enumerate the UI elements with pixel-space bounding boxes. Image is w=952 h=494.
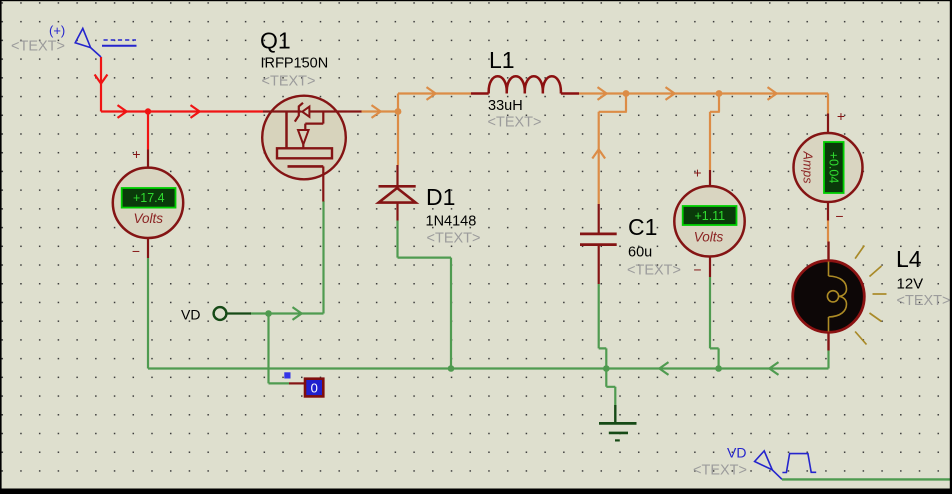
- svg-text:−: −: [835, 208, 843, 224]
- svg-text:+0.04: +0.04: [826, 152, 840, 184]
- wire arrow: orange up into C1 branch: [592, 149, 605, 158]
- svg-text:IRFP150N: IRFP150N: [261, 56, 329, 72]
- logic state box 0: [305, 379, 323, 397]
- lamp L4 stub bottom: [827, 332, 829, 351]
- svg-text:Volts: Volts: [694, 230, 724, 245]
- junction: VD gate node: [265, 310, 272, 317]
- wire: red net from battery to Q1 drain: [101, 57, 263, 150]
- svg-text:C1: C1: [628, 214, 657, 240]
- svg-text:<TEXT>: <TEXT>: [427, 231, 481, 247]
- wire arrow: orange after V2 node: [768, 87, 777, 100]
- junction: D1 node: [395, 108, 402, 115]
- svg-text:<TEXT>: <TEXT>: [488, 115, 542, 131]
- wire: green net D1 anode to ground bus: [148, 201, 829, 406]
- svg-text:<TEXT>: <TEXT>: [627, 263, 681, 279]
- junction: voltmeter2 node: [716, 90, 723, 97]
- svg-text:60u: 60u: [628, 245, 652, 261]
- svg-text:<TEXT>: <TEXT>: [11, 39, 65, 55]
- svg-text:1N4148: 1N4148: [426, 214, 477, 230]
- capacitor C1 bottom plate: [580, 243, 617, 246]
- wire arrow: orange before D1 node: [372, 105, 381, 118]
- ground symbol: [599, 405, 637, 440]
- frame border top: [0, 0, 952, 1]
- junction: voltmeter2 bus node: [715, 365, 722, 372]
- svg-text:VD: VD: [727, 445, 746, 461]
- svg-text:VD: VD: [181, 307, 200, 323]
- wire VD terminal dark green: [227, 312, 252, 314]
- diode D1 cathode bar: [379, 185, 416, 188]
- voltmeter VM2 pin stub top: [709, 170, 711, 187]
- ammeter AM1 pin stub top: [827, 114, 829, 134]
- svg-text:+: +: [837, 108, 845, 124]
- transistor Q1 internal MOSFET symbol: [263, 103, 362, 202]
- voltmeter VM2 body: [674, 186, 744, 256]
- wire arrow: down on battery feed: [95, 75, 108, 84]
- capacitor C1 pin stub bottom: [598, 245, 600, 284]
- wire arrow: orange between C1 and V2 nodes: [666, 87, 675, 100]
- generator VD pulse source symbol: [755, 451, 817, 479]
- transistor Q1 body circle: [262, 96, 346, 180]
- junction: D1 bus node: [448, 365, 455, 372]
- voltmeter VM2 display: [683, 206, 737, 225]
- voltmeter VM1 body: [113, 168, 183, 238]
- frame border right: [950, 0, 952, 494]
- junction: ground bus node: [603, 365, 610, 372]
- svg-text:<TEXT>: <TEXT>: [693, 463, 747, 479]
- junction: battery/voltmeter node: [145, 108, 151, 114]
- svg-text:+1.11: +1.11: [694, 209, 725, 223]
- capacitor C1 pin stub top: [598, 204, 600, 233]
- svg-text:L1: L1: [489, 47, 515, 73]
- svg-text:+17.4: +17.4: [133, 191, 165, 205]
- svg-text:<TEXT>: <TEXT>: [897, 293, 951, 309]
- wire arrow: green bus leftward 2: [769, 362, 778, 375]
- diode D1 pin stub top: [396, 165, 398, 186]
- voltmeter VM2 pin stub bottom: [709, 256, 711, 277]
- svg-text:Q1: Q1: [260, 28, 291, 54]
- junction: C1 node: [623, 90, 630, 97]
- wire: generator output green: [782, 478, 952, 480]
- voltmeter VM1 pin stub bottom: [147, 238, 149, 259]
- svg-text:(+): (+): [49, 23, 65, 38]
- ammeter AM1 body: [794, 133, 863, 202]
- svg-text:+: +: [693, 165, 701, 181]
- svg-text:0: 0: [311, 381, 318, 396]
- frame border bottom: [0, 489, 952, 494]
- wire: orange net Q1 drain stub to D1 junction: [361, 94, 828, 242]
- lamp L4 light rays: [855, 246, 886, 345]
- wire arrow: orange after L1: [598, 87, 607, 100]
- svg-text:−: −: [693, 262, 701, 278]
- svg-text:+: +: [132, 146, 140, 162]
- ammeter AM1 display: [824, 142, 844, 193]
- capacitor C1 top plate: [580, 233, 617, 236]
- svg-text:<TEXT>: <TEXT>: [262, 74, 316, 90]
- terminal VD circle: [214, 307, 227, 320]
- voltmeter VM1 display: [122, 188, 176, 208]
- lamp L4 filament: [827, 262, 846, 332]
- svg-text:Amps: Amps: [800, 151, 814, 184]
- lamp L4 body: [793, 261, 865, 333]
- inductor L1: [471, 76, 579, 93]
- logic probe pin stub: [289, 382, 305, 384]
- logic probe marker square: [284, 372, 290, 378]
- svg-text:−: −: [132, 243, 140, 259]
- wire arrow: right before junction: [118, 105, 127, 118]
- wire arrow: green bus leftward 1: [659, 362, 668, 375]
- ammeter AM1 pin stub bottom: [827, 201, 829, 221]
- diode D1 pin stub bottom: [396, 203, 398, 221]
- battery B1 DC source symbol: [75, 28, 136, 57]
- diode D1 triangle: [379, 188, 416, 203]
- svg-text:12V: 12V: [897, 276, 924, 293]
- svg-text:33uH: 33uH: [488, 98, 523, 114]
- wire arrow: orange before L1: [427, 87, 436, 100]
- voltmeter VM1 pin stub top: [147, 150, 149, 169]
- lamp L4 stub top: [827, 242, 829, 262]
- svg-text:Volts: Volts: [134, 211, 164, 226]
- frame border left: [0, 0, 2, 494]
- svg-text:D1: D1: [426, 184, 455, 210]
- wire arrow: green VD gate wire rightward: [293, 307, 302, 320]
- wire arrow: right after junction: [191, 105, 200, 118]
- svg-text:L4: L4: [896, 246, 922, 272]
